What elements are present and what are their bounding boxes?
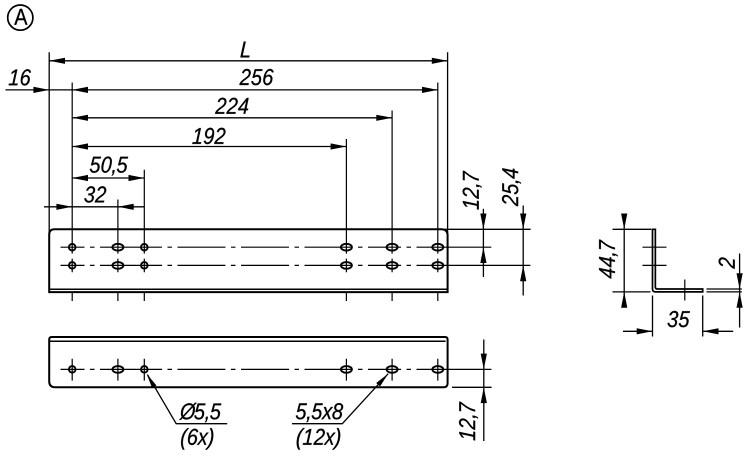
extension line bottom right xyxy=(452,386,492,388)
center line front row2 xyxy=(61,264,531,266)
side view center tick row2 xyxy=(643,264,667,266)
dimension L xyxy=(49,42,447,64)
top view bend line xyxy=(49,340,445,342)
dimension 32 xyxy=(44,186,144,210)
side view center tick leg hole xyxy=(684,280,686,301)
dimension 35 xyxy=(623,311,733,335)
dimension 256 xyxy=(72,69,438,93)
center/extension line column 4 xyxy=(345,139,347,381)
leader arrow to hole T5 with label 5,5x8 xyxy=(292,374,388,424)
leader arrow to hole T3 with label O5,5 xyxy=(147,374,228,424)
hole F7 front row2 col1 (round) xyxy=(69,262,76,269)
hole T4 top view col4 (slot) xyxy=(341,366,352,373)
hole F10 front row2 col4 (slot) xyxy=(341,262,352,269)
dimension 25,4 top right xyxy=(502,168,526,295)
dimension 224 xyxy=(72,98,392,121)
extension line part left edge xyxy=(48,52,50,236)
center line top view row xyxy=(61,368,492,370)
extension lines 44,7 xyxy=(613,229,652,292)
hole F5 front row1 col5 (slot) xyxy=(387,244,398,251)
extension line part right edge xyxy=(447,52,449,236)
hole F3 front row1 col3 (round) xyxy=(141,244,148,251)
hole F2 front row1 col2 (slot) xyxy=(112,244,123,251)
hole T5 top view col5 (slot) xyxy=(387,366,398,373)
dimension 2 xyxy=(719,254,743,328)
hole F8 front row2 col2 (slot) xyxy=(112,262,123,269)
center line front row1 xyxy=(61,246,492,248)
dimension 50,5 xyxy=(72,157,144,182)
extension lines 35 xyxy=(653,296,703,337)
view label A circle xyxy=(8,5,33,30)
hole T1 top view col1 (round) xyxy=(69,366,76,373)
hole T2 top view col2 (slot) xyxy=(112,366,123,373)
dimension 44,7 xyxy=(599,214,627,308)
hole T3 top view col3 (round) xyxy=(141,366,148,373)
center/extension line column 5 xyxy=(391,111,393,381)
extension line top right xyxy=(444,228,531,230)
dimension 12,7 top right xyxy=(463,171,487,277)
center/extension line column 2 xyxy=(117,200,119,381)
dimension 12,7 bottom right xyxy=(459,340,487,442)
hole F6 front row1 col6 (slot) xyxy=(432,244,443,251)
side view center tick row1 xyxy=(643,246,667,248)
hole F12 front row2 col6 (slot) xyxy=(432,262,443,269)
center/extension line column 1 xyxy=(71,83,73,381)
hole F9 front row2 col3 (round) xyxy=(141,262,148,269)
dimension 16 xyxy=(6,69,73,93)
center/extension line column 3 xyxy=(143,170,145,381)
front view outline xyxy=(49,229,447,292)
front view bend line xyxy=(49,288,447,290)
extension lines 2 xyxy=(707,289,742,292)
hole F1 front row1 col1 (round) xyxy=(69,244,76,251)
center/extension line column 6 xyxy=(437,83,439,381)
dimension 192 xyxy=(72,128,346,150)
label (6x) xyxy=(181,428,213,450)
top view outline xyxy=(49,337,447,387)
label (12x) xyxy=(297,428,341,450)
side view L-profile xyxy=(653,229,703,292)
hole F11 front row2 col5 (slot) xyxy=(387,262,398,269)
hole T6 top view col6 (slot) xyxy=(432,366,443,373)
hole F4 front row1 col4 (slot) xyxy=(341,244,352,251)
